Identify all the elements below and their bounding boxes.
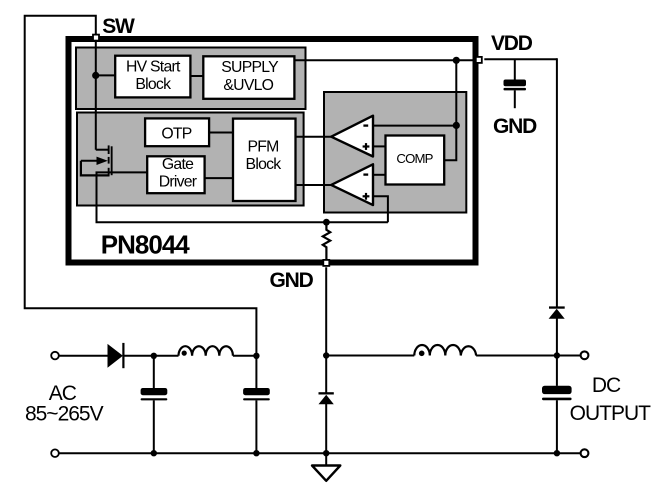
svg-text:AC: AC bbox=[49, 382, 77, 405]
pin VDD terminal bbox=[476, 57, 482, 63]
box COMP bbox=[386, 136, 445, 185]
wire HV Start to SUPPLY bbox=[190, 75, 203, 77]
wire VDD branch vertical to COMP bbox=[444, 60, 456, 160]
node ground rail C1 bbox=[151, 450, 157, 456]
wire SW top loop to input node bbox=[25, 16, 257, 356]
node output cap top bbox=[554, 352, 560, 358]
ground symbol bbox=[312, 453, 340, 481]
node switch output bbox=[323, 352, 329, 358]
wire upper comparator plus input from COMP bbox=[373, 145, 386, 147]
wire GND pin down bbox=[325, 267, 327, 393]
wire node to inductor L1 bbox=[154, 355, 179, 357]
svg-text:HV Start: HV Start bbox=[126, 58, 181, 75]
wire VDD pin to right column bbox=[484, 58, 557, 60]
transistor Q1 power MOSFET bbox=[81, 145, 147, 175]
IC U1 PN8044 outline bbox=[69, 39, 476, 263]
wire internal sense rail bbox=[97, 173, 388, 223]
gray block right (comparator section) bbox=[324, 92, 466, 213]
node SW-HV junction bbox=[92, 72, 99, 79]
op-amp lower comparator bbox=[331, 164, 373, 205]
capacitor C3 VDD bypass bbox=[504, 59, 527, 108]
wire output diode to output rail bbox=[556, 319, 558, 356]
resistor R1 sense bbox=[323, 222, 330, 259]
svg-text:COMP: COMP bbox=[396, 151, 433, 166]
gray block top (supply section) bbox=[76, 48, 306, 110]
wire output inductor to DC+ terminal bbox=[476, 355, 581, 357]
svg-text:SUPPLY: SUPPLY bbox=[221, 59, 279, 76]
svg-text:PFM: PFM bbox=[247, 138, 278, 155]
node comparator minus tap bbox=[453, 122, 460, 129]
wire PFM to upper comparator output bbox=[296, 136, 332, 138]
wire OTP to PFM bbox=[209, 132, 233, 134]
svg-text:Block: Block bbox=[135, 76, 171, 93]
svg-text:SW: SW bbox=[102, 15, 135, 38]
capacitor C1 input filter bbox=[141, 356, 168, 453]
node VDD branch bbox=[453, 57, 460, 64]
svg-text:DC: DC bbox=[592, 374, 621, 397]
inductor L2 output bbox=[414, 345, 476, 356]
wire junction to HV Start Block bbox=[96, 74, 115, 76]
svg-text:&UVLO: &UVLO bbox=[223, 77, 273, 94]
terminal DC output plus bbox=[581, 351, 589, 359]
box PFM Block bbox=[233, 119, 296, 201]
diode D3 output rectifier bbox=[549, 306, 565, 318]
pin GND terminal bbox=[323, 260, 329, 266]
box SUPPLY &UVLO bbox=[203, 56, 294, 99]
svg-text:85~265V: 85~265V bbox=[25, 403, 104, 426]
wire PFM to lower comparator output bbox=[296, 184, 332, 186]
wire Gate Driver to PFM bbox=[205, 177, 233, 179]
svg-text:OUTPUT: OUTPUT bbox=[570, 402, 652, 425]
box HV Start Block bbox=[115, 56, 190, 98]
terminal AC input bottom bbox=[51, 449, 59, 457]
node ground rail center bbox=[323, 450, 329, 456]
op-amp upper comparator bbox=[331, 116, 373, 157]
inductor L1 input filter bbox=[179, 346, 233, 356]
wire switch node to output inductor bbox=[326, 355, 414, 357]
svg-text:GND: GND bbox=[493, 115, 537, 138]
diode D2 freewheeling bbox=[319, 392, 334, 404]
terminal DC output minus bbox=[581, 449, 589, 457]
gray block middle (logic section) bbox=[77, 113, 304, 206]
svg-text:GND: GND bbox=[270, 269, 314, 292]
wire inductor L1 to node bbox=[233, 355, 257, 357]
wire upper comparator minus input bbox=[373, 125, 456, 127]
wire freewheeling diode to ground rail bbox=[325, 404, 327, 453]
node ground rail C2 bbox=[253, 450, 259, 456]
capacitor C2 input filter bbox=[243, 356, 270, 453]
wire lower comparator plus input to sense rail bbox=[373, 196, 388, 222]
svg-text:Driver: Driver bbox=[159, 174, 197, 191]
wire diode to node bbox=[125, 355, 154, 357]
box OTP bbox=[145, 118, 209, 146]
capacitor C4 output bbox=[542, 356, 572, 454]
wire AC top to diode bbox=[59, 355, 108, 357]
terminal AC input top bbox=[51, 352, 59, 360]
svg-text:OTP: OTP bbox=[161, 126, 191, 143]
svg-text:Block: Block bbox=[246, 156, 282, 173]
node ground rail C4 bbox=[554, 450, 560, 456]
node input cap 1 bbox=[151, 353, 157, 359]
pin SW terminal bbox=[93, 35, 99, 41]
diode D1 input rectifier bbox=[108, 343, 125, 368]
box Gate Driver bbox=[147, 156, 204, 193]
wire ground rail bbox=[59, 452, 581, 454]
svg-text:VDD: VDD bbox=[491, 32, 533, 55]
wire SUPPLY to VDD pin bbox=[294, 59, 475, 61]
svg-text:Gate: Gate bbox=[162, 156, 194, 173]
node input cap 2 / SW feed bbox=[253, 353, 259, 359]
wire lower comparator minus input from COMP bbox=[373, 174, 386, 176]
svg-text:PN8044: PN8044 bbox=[101, 230, 190, 260]
wire right column VDD to output diode bbox=[556, 58, 558, 307]
wire SW vertical inside IC bbox=[95, 42, 97, 150]
node sense resistor top bbox=[323, 219, 330, 226]
